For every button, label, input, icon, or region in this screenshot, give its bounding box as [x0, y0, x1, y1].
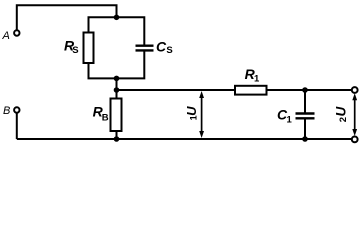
- svg-text:U: U: [184, 106, 199, 116]
- svg-text:B: B: [3, 105, 10, 117]
- capacitor CS: [136, 46, 154, 51]
- terminal B: [14, 107, 19, 112]
- wire bottom rail: [17, 138, 352, 140]
- svg-text:1: 1: [287, 114, 293, 125]
- terminal output top right: [352, 87, 358, 93]
- wire C1 top lead: [304, 90, 306, 113]
- node junction bottom rail at RB: [114, 136, 120, 142]
- value label U2: [334, 106, 350, 123]
- value label U1: [184, 106, 199, 121]
- capacitor C1: [296, 114, 315, 119]
- node junction top: [114, 14, 120, 20]
- node junction C1 bottom: [302, 136, 308, 142]
- svg-text:S: S: [72, 45, 78, 56]
- svg-text:1: 1: [254, 73, 260, 84]
- node junction middle rail: [114, 87, 120, 93]
- svg-text:B: B: [102, 113, 109, 124]
- svg-text:2: 2: [338, 117, 349, 122]
- wire RB top lead: [116, 90, 118, 99]
- resistor RB: [111, 99, 122, 132]
- wire bottom rail of RC parallel group with legs up to RS and CS: [89, 52, 145, 79]
- wire RB bottom lead: [116, 131, 118, 139]
- svg-text:S: S: [166, 45, 172, 56]
- svg-text:1: 1: [188, 115, 198, 120]
- wire C1 bottom lead: [304, 120, 306, 140]
- resistor RS: [84, 33, 94, 64]
- node junction C1 top: [302, 87, 308, 93]
- terminal output bottom right: [352, 137, 358, 143]
- wire top rail of RC parallel group with legs down to RS and CS: [89, 17, 145, 44]
- wire middle rail right of R1 to top-right terminal: [267, 89, 352, 91]
- resistor R1: [235, 86, 267, 95]
- U1 voltage arrow: [199, 91, 204, 138]
- terminal A: [14, 30, 19, 35]
- wire middle rail left of R1: [117, 89, 236, 91]
- svg-text:A: A: [2, 30, 10, 42]
- wire from terminal A up and right to junction: [17, 5, 117, 30]
- U2 voltage arrow: [352, 93, 357, 136]
- svg-text:U: U: [334, 106, 349, 117]
- wire junction to middle rail: [116, 78, 118, 90]
- svg-text:C: C: [156, 38, 167, 54]
- wire terminal B down to bottom rail: [16, 113, 18, 139]
- node junction RC bottom rail: [114, 76, 120, 82]
